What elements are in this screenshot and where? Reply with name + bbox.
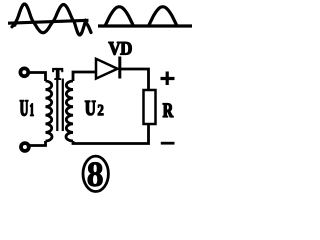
wire: top terminal to primary (29, 73, 46, 82)
figure number 8 (88, 162, 103, 186)
transformer core line left (56, 79, 58, 132)
minus sign (161, 142, 175, 145)
diode VD triangle (96, 59, 118, 79)
diode VD cathode bar (118, 57, 121, 79)
label U2 (85, 101, 95, 115)
input waveform axis (8, 20, 89, 23)
terminal (input bottom) (21, 143, 29, 151)
figure number circle (83, 156, 108, 191)
transformer T primary winding (46, 81, 53, 141)
terminal (input top) (20, 68, 28, 76)
label T (53, 69, 63, 80)
wire: resistor bottom to secondary bottom (73, 124, 149, 144)
transformer core line right (62, 79, 64, 132)
wire: diode cathode to resistor top (120, 69, 149, 90)
plus sign (161, 72, 175, 86)
transformer secondary winding (66, 81, 73, 141)
input waveform start dot (12, 22, 17, 27)
output half-wave hump 1 (105, 7, 134, 26)
resistor R body (144, 90, 156, 124)
wire: primary bottom to bottom terminal (30, 141, 46, 146)
input sine waveform (12, 4, 91, 35)
output half-wave hump 2 (149, 7, 178, 26)
label U1 (20, 100, 28, 115)
label R (163, 104, 173, 117)
output waveform baseline (98, 24, 192, 27)
wire: secondary top to diode anode (73, 72, 96, 81)
label VD (109, 42, 132, 55)
